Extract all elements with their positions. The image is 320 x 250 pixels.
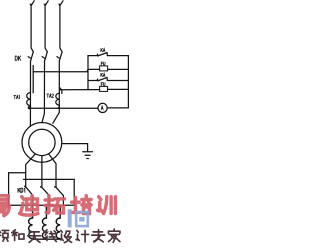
- rheostat coil 2: [42, 205, 46, 239]
- wire H3: [9, 204, 75, 206]
- CT TA1 bottom hook: [28, 106, 30, 109]
- rotor lead right: [49, 154, 56, 187]
- phase L3 upper wire: [60, 7, 62, 52]
- wm blue box dot: [79, 217, 84, 222]
- ground: [83, 152, 93, 159]
- knife switch DK pole 2: [42, 52, 47, 61]
- wire row D from TA2: [60, 89, 100, 91]
- ladder right rail: [127, 56, 129, 108]
- motor case wire to ground: [62, 144, 88, 152]
- label TA1: [14, 95, 20, 98]
- phase L3 supply arrow: [61, 1, 63, 4]
- phase L1 lower wire: [29, 61, 31, 126]
- knife switch DK pole 1: [28, 52, 33, 61]
- wm char yi: [0, 196, 9, 216]
- motor rotor: [29, 129, 55, 155]
- wire CT commons to ammeter: [28, 107, 98, 109]
- wm char xun: [98, 197, 116, 214]
- label KA lower: [101, 73, 105, 76]
- node dot on L3: [59, 88, 61, 90]
- ammeter A: [98, 103, 107, 112]
- label TA2: [47, 94, 54, 97]
- phase L1 upper wire: [31, 7, 33, 52]
- label DK: [15, 56, 21, 60]
- CT TA1 secondary lead: [32, 66, 34, 93]
- contact KD pole 2: [40, 186, 42, 188]
- wm char he: [12, 230, 24, 241]
- CT TA2 secondary lead: [61, 90, 63, 94]
- fuse FU upper: [100, 66, 108, 71]
- wm char she: [60, 230, 72, 242]
- wire H1: [9, 172, 26, 174]
- CT TA2 bottom hook: [57, 105, 59, 108]
- rheostat coil 1: [29, 205, 33, 239]
- label KD: [18, 188, 25, 192]
- phase L2 supply arrow: [46, 1, 48, 4]
- label KA upper: [101, 49, 105, 52]
- wm char di: [20, 196, 38, 215]
- ladder left rail: [87, 56, 89, 90]
- phase L2 upper wire: [45, 7, 47, 52]
- phase L2 lower wire: [42, 61, 45, 123]
- wm blue box: [76, 212, 88, 226]
- ammeter right wire: [107, 107, 128, 109]
- switch KA upper blade: [97, 53, 107, 56]
- rotor lead middle: [41, 156, 43, 187]
- wm char pei: [71, 196, 91, 214]
- knife switch DK pole 3: [57, 52, 62, 61]
- wire right drop: [73, 179, 75, 205]
- wm char zhuan: [92, 230, 105, 242]
- wire row B from TA1 lead: [33, 69, 99, 71]
- CT TA1 winding: [27, 93, 31, 106]
- wm char pin: [0, 230, 9, 241]
- wire H4 star bar: [33, 238, 61, 240]
- phase L3 lower wire: [53, 61, 59, 123]
- switch KA lower blade: [97, 78, 107, 81]
- wm char xian: [45, 230, 57, 242]
- wire left drop: [8, 173, 10, 206]
- wire row A: [88, 55, 128, 57]
- wm char tuo: [45, 196, 64, 213]
- label FU upper: [101, 62, 105, 65]
- wm char ji: [76, 230, 89, 242]
- fuse FU lower: [100, 86, 108, 91]
- contact KD pole 1: [24, 186, 26, 188]
- motor stator: [22, 122, 62, 162]
- label FU lower: [101, 83, 105, 86]
- wm char tian: [28, 232, 41, 242]
- phase L1 supply arrow: [32, 1, 34, 4]
- CT TA2 winding: [56, 93, 60, 105]
- wm blue bar: [68, 209, 72, 227]
- wm char jia: [108, 229, 120, 242]
- rheostat coil 3: [56, 205, 60, 239]
- contact KD pole 3: [54, 186, 56, 188]
- rotor lead left: [26, 154, 36, 186]
- wire H2: [24, 178, 75, 180]
- wire row C: [88, 80, 128, 82]
